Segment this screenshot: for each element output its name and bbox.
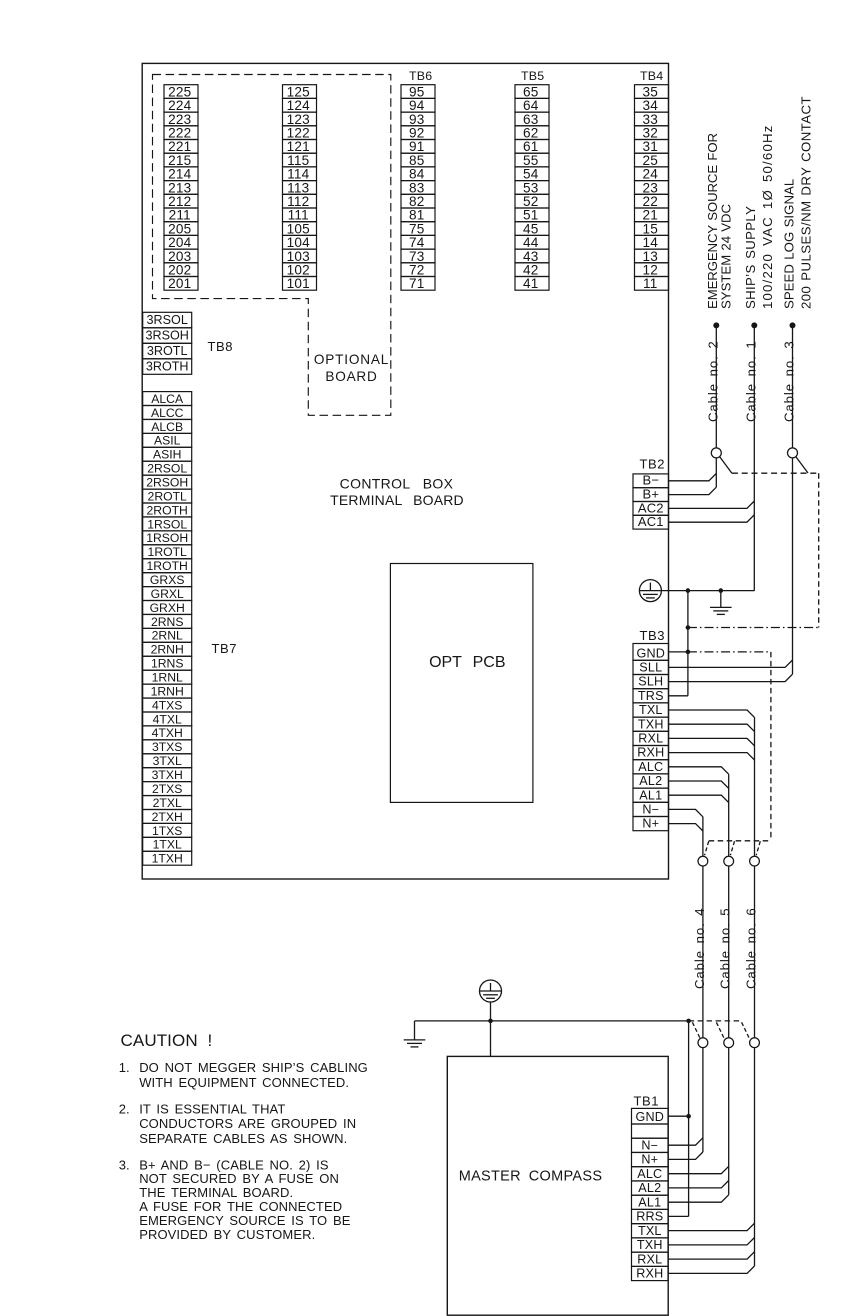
svg-text:ALCA: ALCA [151, 392, 184, 406]
svg-text:PROVIDED BY CUSTOMER.: PROVIDED BY CUSTOMER. [139, 1227, 315, 1242]
svg-text:CAUTION !: CAUTION ! [121, 1031, 213, 1050]
svg-text:2.: 2. [119, 1101, 130, 1116]
svg-text:1RNH: 1RNH [151, 685, 184, 699]
svg-text:RRS: RRS [636, 1210, 663, 1224]
svg-text:RXL: RXL [637, 1252, 662, 1266]
svg-text:3RSOL: 3RSOL [147, 313, 188, 327]
master compass label [459, 1169, 603, 1185]
svg-text:GND: GND [636, 1110, 665, 1124]
svg-text:GND: GND [637, 646, 666, 660]
svg-text:SLH: SLH [638, 675, 663, 689]
junction GND TB1 [686, 1114, 691, 1119]
svg-text:ALC: ALC [638, 760, 663, 774]
svg-text:GRXH: GRXH [150, 601, 185, 615]
svg-text:GRXS: GRXS [150, 573, 185, 587]
caution note 1 [119, 1060, 368, 1090]
svg-text:N−: N− [641, 1139, 658, 1153]
protective earth symbol (control box) [639, 580, 661, 602]
svg-text:ASIH: ASIH [153, 448, 181, 462]
cable no.2 terminal dot [713, 322, 719, 328]
compass earth lead [490, 1002, 492, 1056]
wire ALC TB1 [668, 1166, 729, 1173]
cable no.1 terminal dot [751, 322, 757, 328]
svg-text:41: 41 [523, 276, 539, 291]
earth bus wire [661, 590, 754, 592]
shield drain dashed run [732, 472, 819, 474]
svg-text:SEPARATE CABLES AS SHOWN.: SEPARATE CABLES AS SHOWN. [139, 1131, 347, 1146]
wire AC1 [669, 515, 755, 522]
cable no.5 wire [728, 774, 730, 1195]
junction ground lead lower [686, 1019, 691, 1024]
svg-text:TB7: TB7 [212, 641, 238, 656]
svg-text:TB3: TB3 [640, 628, 666, 643]
wire SLL [669, 660, 793, 667]
svg-text:2RNS: 2RNS [151, 615, 184, 629]
svg-text:1RSOL: 1RSOL [147, 517, 187, 531]
svg-text:TB1: TB1 [634, 1094, 660, 1109]
svg-text:1RNL: 1RNL [152, 671, 183, 685]
svg-text:2RNL: 2RNL [152, 629, 183, 643]
svg-text:3TXL: 3TXL [153, 754, 182, 768]
chassis ground symbol (lower) [404, 1021, 426, 1047]
wire TXH TB1 [668, 1238, 754, 1245]
cable no.3 terminal dot [790, 322, 796, 328]
cable no.2 label [705, 340, 720, 422]
TB8 label [208, 339, 234, 354]
svg-text:3.: 3. [119, 1157, 130, 1172]
svg-text:1TXS: 1TXS [152, 824, 182, 838]
GND shield stub cable4 [705, 841, 709, 855]
svg-text:SPEED LOG SIGNAL: SPEED LOG SIGNAL [781, 179, 796, 309]
svg-text:AC1: AC1 [638, 514, 664, 529]
wire RXL TB1 [668, 1252, 754, 1259]
svg-text:SYSTEM 24 VDC: SYSTEM 24 VDC [718, 203, 733, 309]
svg-text:OPT PCB: OPT PCB [429, 654, 505, 671]
wire RXH TB3 [669, 753, 755, 760]
master compass box [447, 1056, 668, 1315]
shield drain dash-dot to ground [688, 627, 819, 629]
junction GND [686, 650, 691, 655]
junction shield/ground [686, 625, 691, 630]
optional board label [314, 352, 389, 384]
svg-text:2ROTH: 2ROTH [147, 503, 188, 517]
svg-text:TERMINAL BOARD: TERMINAL BOARD [330, 492, 464, 508]
svg-text:IT IS ESSENTIAL THAT: IT IS ESSENTIAL THAT [139, 1101, 285, 1116]
ground lead vertical [687, 591, 689, 696]
chassis ground symbol (upper) [710, 591, 732, 615]
svg-text:SLL: SLL [639, 661, 662, 675]
svg-text:TXL: TXL [639, 703, 663, 717]
ships supply label [743, 124, 775, 309]
OPT PCB label [429, 654, 505, 671]
shield drain dashed drop [818, 473, 820, 627]
wire AL2 TB1 [668, 1181, 729, 1188]
cable no.6 gland upper [750, 856, 760, 866]
wire AL2 TB3 [669, 781, 729, 788]
svg-text:2TXL: 2TXL [153, 796, 182, 810]
cable no.2 shield drain [720, 457, 732, 474]
junction compass earth [488, 1019, 493, 1024]
wire AL1 TB1 [668, 1195, 729, 1202]
svg-text:101: 101 [287, 276, 310, 291]
wire GND TB3 dash-dot [688, 651, 771, 653]
svg-text:TRS: TRS [638, 689, 664, 703]
svg-text:Cable no. 2: Cable no. 2 [705, 340, 720, 422]
svg-text:100/220 VAC 1Ø 50/60Hz: 100/220 VAC 1Ø 50/60Hz [760, 124, 775, 309]
wire TXL TB1 [668, 1223, 754, 1230]
cable no.6 wire [754, 717, 756, 1266]
GND shield dashed run [709, 840, 771, 842]
svg-text:Cable no. 3: Cable no. 3 [782, 340, 797, 422]
wire SLH [669, 674, 793, 681]
svg-text:CONDUCTORS ARE GROUPED IN: CONDUCTORS ARE GROUPED IN [139, 1116, 356, 1131]
svg-text:THE TERMINAL BOARD.: THE TERMINAL BOARD. [139, 1185, 293, 1200]
svg-text:ALCB: ALCB [151, 420, 183, 434]
TB7 label [212, 641, 238, 656]
cable no.6 label [744, 907, 759, 989]
shield stub cable4 lower [692, 1022, 700, 1038]
svg-text:AL2: AL2 [639, 774, 662, 788]
svg-text:CONTROL BOX: CONTROL BOX [340, 476, 454, 492]
svg-text:GRXL: GRXL [151, 587, 184, 601]
svg-text:1ROTL: 1ROTL [148, 545, 188, 559]
svg-text:NOT SECURED BY A FUSE ON: NOT SECURED BY A FUSE ON [139, 1171, 339, 1186]
wire GND TB3 solid [669, 651, 688, 653]
cable no.1 wire [753, 325, 755, 591]
terminal block TB3 [633, 644, 669, 831]
emergency source label [705, 133, 733, 309]
wire N+ TB3 [669, 824, 703, 831]
wire TXL TB3 [669, 710, 755, 717]
cable no.3 shield circle [788, 448, 798, 458]
svg-text:201: 201 [168, 276, 191, 291]
cable no.5 gland upper [724, 856, 734, 866]
cable no.5 gland lower [724, 1038, 734, 1048]
svg-text:3TXH: 3TXH [152, 768, 183, 782]
svg-text:1RSOH: 1RSOH [146, 531, 188, 545]
terminal block TB5 [515, 69, 549, 291]
cable no.3 label [782, 340, 797, 422]
cable no.4 gland upper [698, 856, 708, 866]
svg-text:4TXL: 4TXL [153, 712, 182, 726]
svg-text:4TXH: 4TXH [152, 726, 183, 740]
svg-text:1ROTH: 1ROTH [147, 559, 188, 573]
svg-text:TB8: TB8 [208, 339, 234, 354]
svg-text:3TXS: 3TXS [152, 740, 182, 754]
terminal block TB4 [635, 69, 669, 291]
wire N- TB1 [668, 1138, 703, 1145]
TB2 label [640, 457, 666, 472]
terminal column 225-201 [164, 84, 198, 291]
svg-text:Cable no. 6: Cable no. 6 [744, 907, 759, 989]
earth line lower [415, 1020, 689, 1022]
svg-text:4TXS: 4TXS [152, 698, 182, 712]
svg-text:2RSOH: 2RSOH [146, 476, 188, 490]
svg-text:MASTER COMPASS: MASTER COMPASS [459, 1169, 603, 1185]
cable no.3 shield drain [796, 457, 808, 473]
svg-text:A FUSE FOR THE CONNECTED: A FUSE FOR THE CONNECTED [139, 1199, 342, 1214]
wire AC2 [669, 501, 755, 508]
svg-text:EMERGENCY SOURCE IS TO BE: EMERGENCY SOURCE IS TO BE [139, 1213, 351, 1228]
svg-text:ALCC: ALCC [151, 406, 184, 420]
cable no.4 label [692, 907, 707, 989]
cable no.5 label [718, 907, 733, 989]
svg-text:71: 71 [409, 276, 425, 291]
terminal column 125-101 [283, 84, 317, 291]
wire TXH TB3 [669, 724, 755, 731]
svg-text:AL1: AL1 [638, 1195, 661, 1209]
svg-text:2ROTL: 2ROTL [148, 489, 188, 503]
svg-text:TXL: TXL [638, 1224, 662, 1238]
wire RXL TB3 [669, 738, 755, 745]
svg-text:TB6: TB6 [409, 69, 432, 83]
svg-text:RXH: RXH [637, 746, 664, 760]
control box terminal board label [330, 476, 464, 509]
GND shield stub cable6 [756, 841, 760, 855]
wire RRS TB1 [668, 1215, 688, 1217]
wire N- TB3 [669, 809, 703, 816]
shield stub cable6 lower [742, 1022, 750, 1038]
caution heading [121, 1031, 213, 1050]
svg-text:3RSOH: 3RSOH [146, 329, 189, 343]
svg-text:Cable no. 5: Cable no. 5 [718, 907, 733, 989]
svg-text:2RNH: 2RNH [151, 643, 184, 657]
svg-text:2TXS: 2TXS [152, 782, 182, 796]
svg-text:3ROTL: 3ROTL [147, 344, 188, 358]
svg-text:200 PULSES/NM DRY CONTACT: 200 PULSES/NM DRY CONTACT [798, 96, 813, 309]
TB1 label [634, 1094, 660, 1109]
svg-text:TXH: TXH [637, 1238, 663, 1252]
wire B+ [669, 487, 717, 494]
ground lead vertical lower [688, 1021, 690, 1217]
shield dashed run lower [689, 1020, 742, 1022]
protective earth symbol (compass) [480, 980, 502, 1002]
cable no.4 gland lower [698, 1038, 708, 1048]
terminal block TB8 [143, 312, 192, 374]
cable no.1 label [743, 340, 758, 422]
svg-text:N+: N+ [642, 817, 659, 831]
terminal block TB6 [401, 69, 435, 291]
speed log label [781, 96, 813, 309]
control box outline [142, 63, 668, 879]
wire ALC TB3 [669, 767, 729, 774]
cable no.3 wire [792, 325, 794, 674]
GND shield stub cable5 [730, 841, 734, 855]
wire AL1 TB3 [669, 795, 729, 802]
svg-text:1TXL: 1TXL [153, 838, 182, 852]
OPT PCB box [390, 564, 533, 803]
caution note 2 [119, 1101, 357, 1146]
svg-text:ALC: ALC [637, 1167, 662, 1181]
svg-text:1RNS: 1RNS [151, 657, 184, 671]
junction earth/ground lead [686, 588, 691, 593]
TB3 label [640, 628, 666, 643]
cable no.4 wire [702, 817, 704, 1152]
svg-text:Cable no. 4: Cable no. 4 [692, 907, 707, 989]
caution note 3 [119, 1157, 351, 1242]
wire RXH TB1 [668, 1266, 754, 1273]
svg-text:AC2: AC2 [638, 500, 664, 515]
svg-text:3ROTH: 3ROTH [146, 360, 189, 374]
svg-text:1TXH: 1TXH [152, 852, 183, 866]
cable no.2 shield circle [711, 448, 721, 458]
svg-text:BOARD: BOARD [325, 369, 377, 384]
svg-text:1.: 1. [119, 1060, 130, 1075]
terminal block TB7 [143, 392, 192, 866]
svg-text:WITH EQUIPMENT CONNECTED.: WITH EQUIPMENT CONNECTED. [139, 1075, 349, 1090]
terminal block TB2 [633, 473, 669, 529]
wire N+ TB1 [668, 1152, 703, 1159]
svg-text:TXH: TXH [638, 717, 664, 731]
svg-text:RXH: RXH [636, 1267, 663, 1281]
cable no.6 gland lower [750, 1038, 760, 1048]
svg-text:TB5: TB5 [521, 69, 544, 83]
svg-text:DO NOT MEGGER SHIP’S CABLING: DO NOT MEGGER SHIP’S CABLING [139, 1060, 368, 1075]
svg-text:N+: N+ [641, 1153, 658, 1167]
optional board dashed outline [153, 75, 391, 416]
svg-text:AL2: AL2 [638, 1181, 661, 1195]
svg-text:B−: B− [642, 473, 659, 488]
svg-text:B+: B+ [642, 487, 659, 502]
svg-text:SHIP’S SUPPLY: SHIP’S SUPPLY [743, 206, 758, 309]
shield stub cable5 lower [716, 1022, 724, 1038]
GND shield dashed drop [770, 652, 772, 841]
svg-text:N−: N− [642, 803, 659, 817]
svg-text:OPTIONAL: OPTIONAL [314, 352, 389, 367]
wire GND TB1 [668, 1115, 688, 1117]
junction earth/chassis [719, 588, 724, 593]
terminal block TB1 [632, 1108, 669, 1280]
svg-text:RXL: RXL [638, 732, 663, 746]
cable no.2 wire [715, 325, 717, 487]
wire TRS [669, 695, 688, 697]
wire B- [669, 473, 717, 480]
svg-text:AL1: AL1 [639, 788, 662, 802]
svg-text:TB4: TB4 [640, 69, 663, 83]
svg-text:ASIL: ASIL [154, 434, 181, 448]
svg-text:2RSOL: 2RSOL [147, 462, 187, 476]
svg-text:Cable no. 1: Cable no. 1 [743, 340, 758, 422]
svg-text:2TXH: 2TXH [152, 810, 183, 824]
svg-text:B+ AND B− (CABLE NO. 2) IS: B+ AND B− (CABLE NO. 2) IS [139, 1157, 329, 1172]
svg-text:TB2: TB2 [640, 457, 666, 472]
svg-text:11: 11 [643, 276, 658, 291]
